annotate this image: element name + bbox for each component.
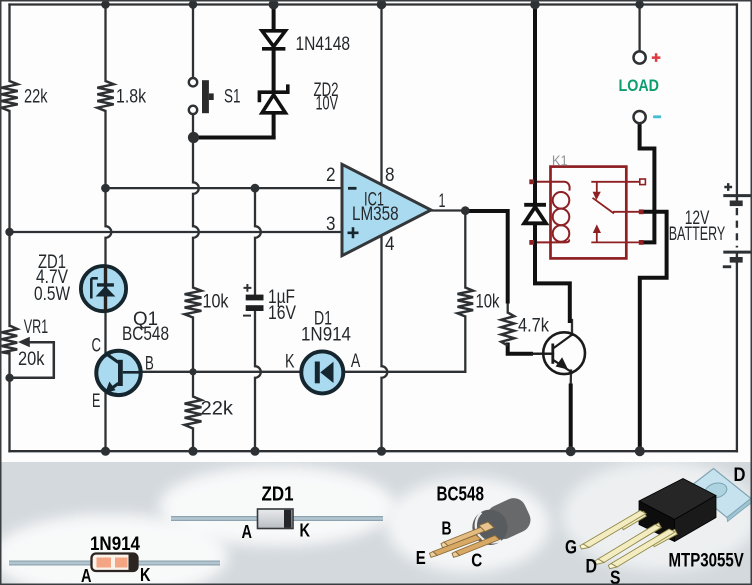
svg-text:10V: 10V <box>316 93 339 115</box>
wire cap bottom to ground rail with hop over base line <box>255 310 261 451</box>
wire left rail mid segment <box>8 111 10 326</box>
resistor 1.8k <box>97 81 113 111</box>
svg-text:8: 8 <box>385 164 395 186</box>
potentiometer VR1 wiper arrowhead <box>18 337 30 347</box>
transistor Q2 driver <box>531 332 585 374</box>
node ground x571 <box>566 446 576 456</box>
wire right 10k bottom, corner into base line <box>464 317 466 372</box>
svg-text:B: B <box>442 519 452 539</box>
MTP3055V tab <box>690 469 752 522</box>
wire 4.7k top lead thin <box>507 301 509 313</box>
wire thick ZD2 to corner node <box>272 113 276 138</box>
wire op-amp output <box>431 209 466 211</box>
halo MTP3055V <box>562 461 752 571</box>
node top rail x640 <box>635 0 644 9</box>
wire S1 column from top rail <box>192 5 194 78</box>
diode D2 relay flyback <box>524 205 546 224</box>
wire left rail lower segment <box>8 353 10 451</box>
wire thick output node to 4.7k <box>466 211 508 302</box>
wire 1.8k column top <box>104 5 106 82</box>
svg-text:BC548: BC548 <box>437 484 485 506</box>
node base/divider <box>189 368 196 375</box>
svg-text:1.8k: 1.8k <box>116 86 146 108</box>
resistor 22k top-left <box>1 81 17 111</box>
wire pin2 line <box>106 187 343 189</box>
svg-text:1N914: 1N914 <box>90 533 140 555</box>
wire pin8 column <box>380 5 382 186</box>
1N914 package lead <box>9 561 220 566</box>
wire left rail upper segment <box>8 5 10 82</box>
node top rail x274 <box>269 0 279 10</box>
svg-text:B: B <box>145 352 154 374</box>
wire pin4 column with hop over base line <box>382 236 388 451</box>
op-amp minus mark <box>348 187 357 190</box>
resistor 10k left <box>185 288 202 318</box>
svg-text:10k: 10k <box>203 290 229 312</box>
svg-text:22k: 22k <box>24 86 48 108</box>
relay NO terminal square open <box>640 179 646 185</box>
svg-text:1N914: 1N914 <box>301 323 351 345</box>
node pin2/1.8k <box>101 184 110 193</box>
relay coil <box>537 182 570 243</box>
svg-text:BC548: BC548 <box>122 323 169 345</box>
wire driver collector thin segment <box>571 320 573 335</box>
svg-text:4: 4 <box>385 233 395 255</box>
wire bottom ground rail <box>10 450 737 452</box>
wire driver emitter thin segment <box>570 371 573 387</box>
ZD1 package body <box>258 509 294 529</box>
wire thick 4.7k to driver base stub <box>508 345 531 354</box>
svg-text:E: E <box>92 390 100 412</box>
svg-text:K: K <box>300 521 311 541</box>
wire S1 bottom to node <box>192 114 194 137</box>
svg-text:4.7k: 4.7k <box>518 314 549 336</box>
svg-text:G: G <box>565 538 577 559</box>
svg-text:MTP3055V: MTP3055V <box>669 550 745 571</box>
relay contact terminal squares <box>639 209 644 214</box>
wire thick driver emitter to ground <box>569 386 573 452</box>
svg-text:S: S <box>610 568 621 585</box>
wire thick ZD2 node to S1 node <box>194 136 274 140</box>
wire ZD1 to Q1 collector <box>104 311 106 354</box>
relay contact arrows <box>593 192 601 201</box>
svg-text:C: C <box>92 334 102 356</box>
svg-text:20k: 20k <box>18 348 45 370</box>
node S1/ZD2 corner <box>188 132 199 143</box>
MTP3055V leads <box>580 511 677 569</box>
capacitor polarity marks <box>243 284 251 316</box>
svg-text:LOAD: LOAD <box>619 76 660 95</box>
wire thick between 1N4148 and ZD2 <box>272 50 276 91</box>
svg-text:E: E <box>416 548 426 568</box>
BC548 package leads <box>430 522 500 557</box>
wire 10k to 22k through base node <box>192 318 194 397</box>
bottom panel <box>1 462 751 584</box>
label load plus <box>652 53 661 62</box>
wire S1 node down to 10k with hops over pin2 and pin3 lines <box>193 138 199 288</box>
svg-text:0.5W: 0.5W <box>34 283 70 305</box>
wire thick load minus to relay NO contact <box>640 124 655 243</box>
svg-text:1: 1 <box>439 190 446 212</box>
BC548 package body <box>467 494 535 551</box>
node pin3/left rail <box>5 228 13 236</box>
node output <box>461 206 470 215</box>
node top rail x106 <box>101 0 110 9</box>
node ground x193 <box>188 447 197 456</box>
halo 1N914 <box>0 514 228 585</box>
load minus terminal <box>634 111 646 123</box>
wire 4.7k bottom lead thin <box>507 346 509 354</box>
op-amp IC1 LM358 <box>342 164 431 255</box>
wire thick relay column top rail to diode <box>533 5 537 204</box>
halo BC548 <box>386 477 550 573</box>
wire pin3 line <box>10 231 343 233</box>
node VR1 wiper/left rail <box>5 374 13 382</box>
wire right rail below battery <box>736 264 738 452</box>
svg-text:K: K <box>285 351 295 373</box>
ZD1 package lead <box>171 516 383 521</box>
wire base line from Q1 to right 10k <box>140 371 466 373</box>
resistor 22k bottom <box>185 397 202 429</box>
svg-text:22k: 22k <box>201 398 234 420</box>
svg-text:D: D <box>586 557 598 578</box>
svg-text:VR1: VR1 <box>24 316 49 338</box>
svg-text:A: A <box>242 522 253 542</box>
wire driver base thin segment <box>530 353 553 355</box>
node ground x106 <box>101 447 110 456</box>
halo ZD1 <box>159 466 395 546</box>
svg-text:ZD1: ZD1 <box>262 484 294 506</box>
svg-text:K1: K1 <box>552 152 568 169</box>
node top rail x193 <box>189 0 198 9</box>
relay K1 box <box>551 167 627 259</box>
resistor 4.7k <box>501 313 514 346</box>
node ground x382 <box>377 447 386 456</box>
node top rail x382 <box>377 0 387 9</box>
node ground x255 <box>250 447 259 456</box>
svg-text:A: A <box>351 350 360 372</box>
node pin2/cap <box>251 184 260 193</box>
wire 1.8k bottom to pin2 node and down to ZD1 with hop over pin3 line <box>106 111 112 266</box>
wire thick diode chain top <box>272 5 276 32</box>
svg-text:D: D <box>734 465 746 486</box>
label load minus <box>653 115 661 118</box>
svg-text:C: C <box>471 550 482 570</box>
svg-text:BATTERY: BATTERY <box>669 223 726 245</box>
wire output node down through right 10k <box>464 211 466 288</box>
wire cap column: pin2 node down to cap, hop over pin3 <box>255 188 261 298</box>
svg-text:16V: 16V <box>268 302 296 324</box>
wire thick relay diode to corner and driver collector <box>535 225 570 321</box>
relay contacts <box>591 182 641 243</box>
wire top supply rail <box>10 3 737 5</box>
zener ZD2 <box>259 84 287 112</box>
svg-text:3: 3 <box>326 213 336 235</box>
resistor 10k right <box>458 288 474 317</box>
diode D1 1N914 in circle <box>301 351 343 393</box>
load plus terminal <box>634 51 646 63</box>
node top rail x535 <box>530 0 540 9</box>
switch S1 <box>189 78 214 114</box>
svg-text:1N4148: 1N4148 <box>296 33 351 55</box>
wire 22k to ground rail <box>192 429 194 452</box>
battery B1 <box>723 196 750 264</box>
capacitor C1 1uF <box>246 295 264 311</box>
transistor Q1 BC548 <box>96 351 140 395</box>
potentiometer VR1 wiper <box>11 342 54 378</box>
svg-text:A: A <box>81 566 92 585</box>
wire Q1 emitter to ground rail <box>104 393 106 452</box>
MTP3055V body <box>639 479 716 542</box>
svg-text:S1: S1 <box>224 86 241 108</box>
svg-text:LM358: LM358 <box>352 203 399 225</box>
zener ZD1 in circle <box>81 266 126 311</box>
wire right rail above battery <box>736 5 738 194</box>
label battery plus <box>724 183 732 191</box>
node ground x640 <box>635 446 645 456</box>
svg-text:2: 2 <box>326 164 336 186</box>
diode 1N4148 <box>262 31 285 49</box>
wire load plus terminal drop <box>638 5 640 52</box>
potentiometer VR1 zigzag <box>2 326 17 354</box>
1N914 package body <box>92 554 138 572</box>
label battery minus <box>723 265 731 268</box>
svg-text:10k: 10k <box>476 291 500 313</box>
relay coil terminal squares <box>529 179 534 184</box>
op-amp plus mark <box>348 227 359 238</box>
svg-text:K: K <box>140 565 151 585</box>
wire thick relay common to ground rail <box>640 212 667 451</box>
